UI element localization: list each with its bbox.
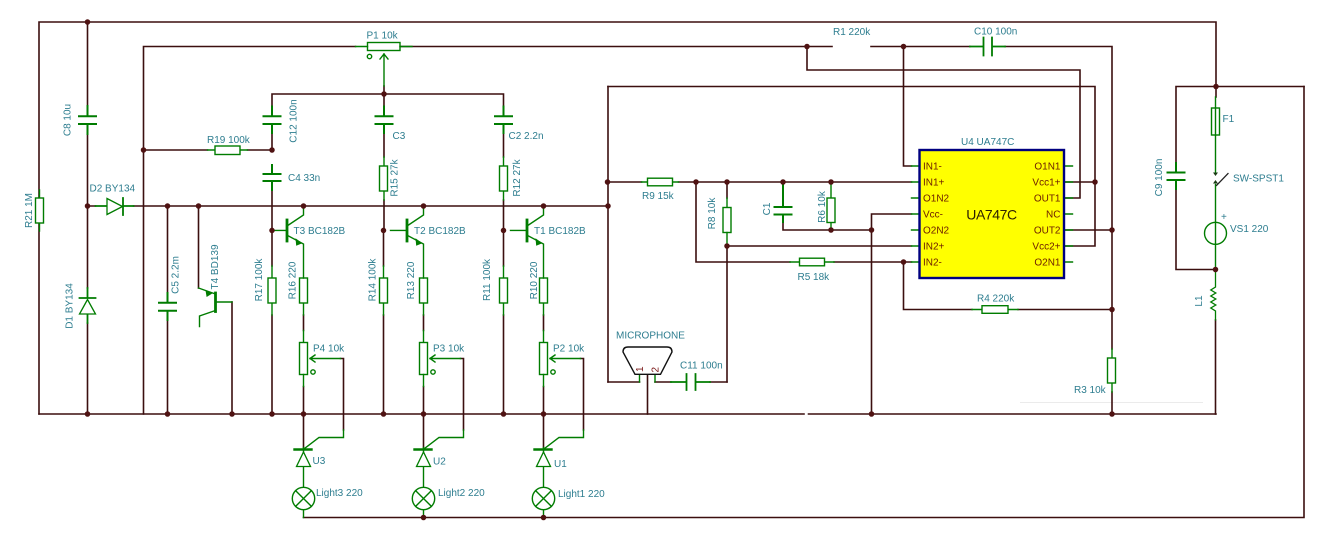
wire Vcc1+ pin link: [1065, 181, 1096, 183]
lamp Light3: [292, 487, 314, 517]
wire C12-C4 column: [271, 133, 273, 230]
wire U1 anode: [543, 414, 545, 448]
svg-text:C3: C3: [393, 131, 406, 142]
resistor R10: [540, 278, 548, 343]
wire R13-P3 column: [423, 315, 425, 414]
svg-text:R1 220k: R1 220k: [833, 27, 871, 38]
svg-text:2: 2: [651, 367, 662, 373]
svg-text:R3 10k: R3 10k: [1074, 385, 1107, 396]
svg-text:Light2 220: Light2 220: [438, 488, 485, 499]
inductor L1: [1211, 270, 1216, 321]
microphone MICROPHONE: [623, 347, 672, 374]
wire D1 column: [87, 206, 89, 414]
wire OUT2 link: [1065, 229, 1113, 231]
wire Vcc2+ pin link: [1065, 182, 1096, 246]
svg-text:R21 1M: R21 1M: [24, 193, 35, 228]
svg-text:U4 UA747C: U4 UA747C: [961, 137, 1014, 148]
svg-text:O2N1: O2N1: [1034, 258, 1061, 269]
svg-text:MICROPHONE: MICROPHONE: [616, 331, 685, 342]
transistor T1: [511, 206, 544, 278]
resistor R19: [208, 146, 248, 155]
svg-text:P2 10k: P2 10k: [553, 344, 585, 355]
svg-text:O1N1: O1N1: [1034, 162, 1061, 173]
svg-text:R15 27k: R15 27k: [390, 158, 401, 196]
wire second rail: [144, 47, 356, 415]
fuse F1: [1212, 97, 1220, 172]
switch SW-SPST1: [1213, 173, 1228, 223]
wire C5 column: [167, 206, 169, 414]
resistor R13: [420, 278, 428, 343]
wire R17 column: [271, 230, 273, 414]
wire T4 base drop: [231, 302, 233, 414]
wire OUT1 feedback: [807, 47, 1080, 199]
wire R8 to mic: [726, 246, 728, 382]
op-amp U4 pin stubs: [912, 166, 1073, 262]
svg-text:P3 10k: P3 10k: [433, 344, 465, 355]
wire mic pin2 to C11: [655, 381, 671, 383]
resistor R8: [723, 198, 731, 246]
wire mic stem: [647, 374, 649, 414]
svg-text:R9 15k: R9 15k: [642, 191, 675, 202]
capacitor C8: [79, 106, 96, 134]
diode D2: [96, 198, 134, 215]
transistor T3: [272, 206, 304, 278]
wire bottom bus right: [809, 413, 1217, 415]
resistor R5: [790, 258, 834, 266]
svg-text:P4 10k: P4 10k: [313, 344, 345, 355]
wire C8 column: [87, 22, 89, 206]
svg-text:C8 10u: C8 10u: [63, 104, 74, 136]
faint artifact line: [1020, 402, 1203, 404]
wire C11 to riser: [710, 381, 727, 383]
wire R11 column: [503, 230, 505, 414]
svg-text:O1N2: O1N2: [923, 194, 950, 205]
wire Vcc- jog: [872, 214, 912, 230]
wire main bus: [88, 205, 609, 207]
svg-text:T1 BC182B: T1 BC182B: [534, 226, 586, 237]
svg-text:Light3 220: Light3 220: [316, 488, 363, 499]
capacitor C10: [970, 38, 1005, 56]
wire top rail: [39, 22, 1216, 414]
svg-text:IN2-: IN2-: [923, 258, 942, 269]
svg-text:O2N2: O2N2: [923, 226, 950, 237]
wire P1 wiper to node: [383, 86, 385, 94]
svg-text:U1: U1: [554, 459, 567, 470]
svg-text:Vcc-: Vcc-: [923, 210, 943, 221]
capacitor C4: [264, 165, 281, 190]
transistor T2: [391, 206, 424, 278]
resistor R3: [1108, 349, 1116, 392]
resistor R9: [642, 178, 679, 186]
svg-text:R12 27k: R12 27k: [512, 158, 523, 196]
svg-text:C10 100n: C10 100n: [974, 27, 1017, 38]
wire IN2- to R4: [904, 262, 1113, 310]
svg-text:SW-SPST1: SW-SPST1: [1233, 174, 1284, 185]
svg-text:U2: U2: [433, 457, 446, 468]
wire 871 riser to bottom bus: [871, 230, 873, 414]
svg-text:C12 100n: C12 100n: [289, 99, 300, 142]
svg-text:T3 BC182B: T3 BC182B: [294, 226, 346, 237]
wire IN2+ row: [727, 245, 912, 247]
wire P1 to R1 to C10 row: [400, 47, 1112, 350]
wire IN1- drop: [904, 47, 912, 167]
svg-text:R10 220: R10 220: [529, 261, 540, 299]
wire mic bottom left: [608, 381, 640, 383]
resistor R4: [972, 306, 1018, 314]
thyristor U2: [415, 430, 464, 487]
wire C12-C2 row: [272, 94, 504, 107]
wire P4 wiper to U3 gate: [341, 359, 344, 431]
svg-text:C2 2.2n: C2 2.2n: [509, 131, 544, 142]
svg-text:P1 10k: P1 10k: [367, 31, 399, 42]
svg-text:R17 100k: R17 100k: [254, 258, 265, 302]
svg-text:R8 10k: R8 10k: [707, 197, 718, 230]
svg-text:R5 18k: R5 18k: [798, 272, 831, 283]
svg-text:R14 100k: R14 100k: [368, 258, 379, 302]
op-amp U4 UA747C body: [920, 150, 1065, 278]
wire R8 column: [726, 182, 728, 198]
svg-text:D1 BY134: D1 BY134: [65, 283, 76, 329]
resistor R15: [380, 157, 388, 200]
svg-text:C11 100n: C11 100n: [680, 361, 723, 372]
svg-text:R4 220k: R4 220k: [977, 294, 1015, 305]
svg-text:Light1 220: Light1 220: [558, 489, 605, 500]
svg-text:+: +: [1221, 212, 1227, 223]
wire C2-R12 column: [503, 133, 505, 230]
resistor R21: [36, 190, 44, 231]
wire R16-P4 column: [303, 315, 305, 414]
wire C3 top: [383, 94, 385, 107]
resistor R16: [300, 278, 308, 343]
svg-text:T4 BD139: T4 BD139: [210, 244, 221, 289]
svg-text:L1: L1: [1194, 295, 1205, 307]
svg-text:VS1 220: VS1 220: [1230, 224, 1269, 235]
wire T4 collector riser: [198, 206, 200, 288]
capacitor C2: [495, 107, 512, 134]
transistor T4: [199, 288, 233, 327]
wire P3 wiper to U2 gate: [461, 359, 464, 431]
potentiometer P3: [420, 343, 461, 387]
svg-text:C9 100n: C9 100n: [1154, 159, 1165, 197]
thyristor U1: [535, 430, 584, 487]
svg-text:OUT2: OUT2: [1034, 226, 1061, 237]
svg-text:R16 220: R16 220: [288, 261, 299, 299]
svg-text:R13 220: R13 220: [406, 261, 417, 299]
wire F1 top: [1215, 87, 1217, 98]
wire R5 drop and row: [696, 182, 912, 262]
capacitor C5: [159, 293, 176, 320]
lamp Light2: [412, 487, 434, 517]
wire C1-R6 bottom row: [783, 222, 872, 230]
capacitor C1: [775, 183, 792, 222]
svg-text:U3: U3: [313, 456, 326, 467]
svg-text:C4 33n: C4 33n: [288, 173, 320, 184]
wire L1 bottom: [1215, 320, 1217, 414]
resistor R12: [500, 157, 508, 200]
svg-text:C5 2.2m: C5 2.2m: [171, 256, 182, 294]
svg-text:Vcc1+: Vcc1+: [1032, 178, 1060, 189]
svg-text:IN1-: IN1-: [923, 162, 942, 173]
svg-text:C1: C1: [762, 202, 773, 215]
wire Vcc top link: [608, 87, 1095, 183]
wire R3 bottom: [1111, 392, 1113, 414]
wire R14 column: [383, 230, 385, 414]
wire R19 row: [144, 149, 273, 151]
svg-text:IN1+: IN1+: [923, 178, 945, 189]
svg-text:1: 1: [635, 366, 646, 372]
capacitor C11: [671, 374, 710, 390]
thyristor U3: [295, 430, 344, 487]
svg-text:IN2+: IN2+: [923, 242, 945, 253]
resistor R6: [827, 182, 835, 230]
wire U3 anode: [303, 414, 305, 448]
wire P2 wiper to U1 gate: [581, 359, 584, 431]
svg-text:R11 100k: R11 100k: [482, 258, 493, 301]
svg-text:R6 10k: R6 10k: [817, 190, 828, 223]
source VS1: [1205, 222, 1227, 269]
wire R10-P2 column: [543, 315, 545, 414]
svg-text:T2 BC182B: T2 BC182B: [414, 226, 466, 237]
resistor R17: [268, 266, 276, 315]
svg-text:Vcc2+: Vcc2+: [1032, 242, 1060, 253]
wire lamp return bus: [304, 87, 1305, 518]
lamp Light1: [532, 487, 554, 517]
wire C3-R15 column: [383, 133, 385, 230]
svg-text:OUT1: OUT1: [1034, 194, 1061, 205]
resistor R11: [500, 266, 508, 315]
svg-text:UA747C: UA747C: [966, 207, 1017, 223]
wire R9 row: [608, 181, 912, 183]
resistor R14: [380, 266, 388, 315]
capacitor C3: [376, 107, 393, 134]
svg-text:NC: NC: [1046, 210, 1060, 221]
wire mic box left vertical: [607, 87, 609, 383]
wire C9 branch: [1176, 87, 1304, 270]
capacitor C9: [1168, 163, 1185, 189]
potentiometer P2: [540, 343, 581, 387]
potentiometer P1: [356, 43, 413, 87]
capacitor C12: [264, 107, 281, 134]
svg-text:F1: F1: [1223, 114, 1235, 125]
svg-text:D2 BY134: D2 BY134: [90, 184, 136, 195]
wire bottom bus left: [39, 413, 804, 415]
svg-text:R19 100k: R19 100k: [207, 135, 251, 146]
diode D1: [80, 288, 96, 323]
microphone pin stubs: [640, 374, 656, 382]
wire U2 anode: [423, 414, 425, 448]
potentiometer P4: [300, 343, 341, 387]
